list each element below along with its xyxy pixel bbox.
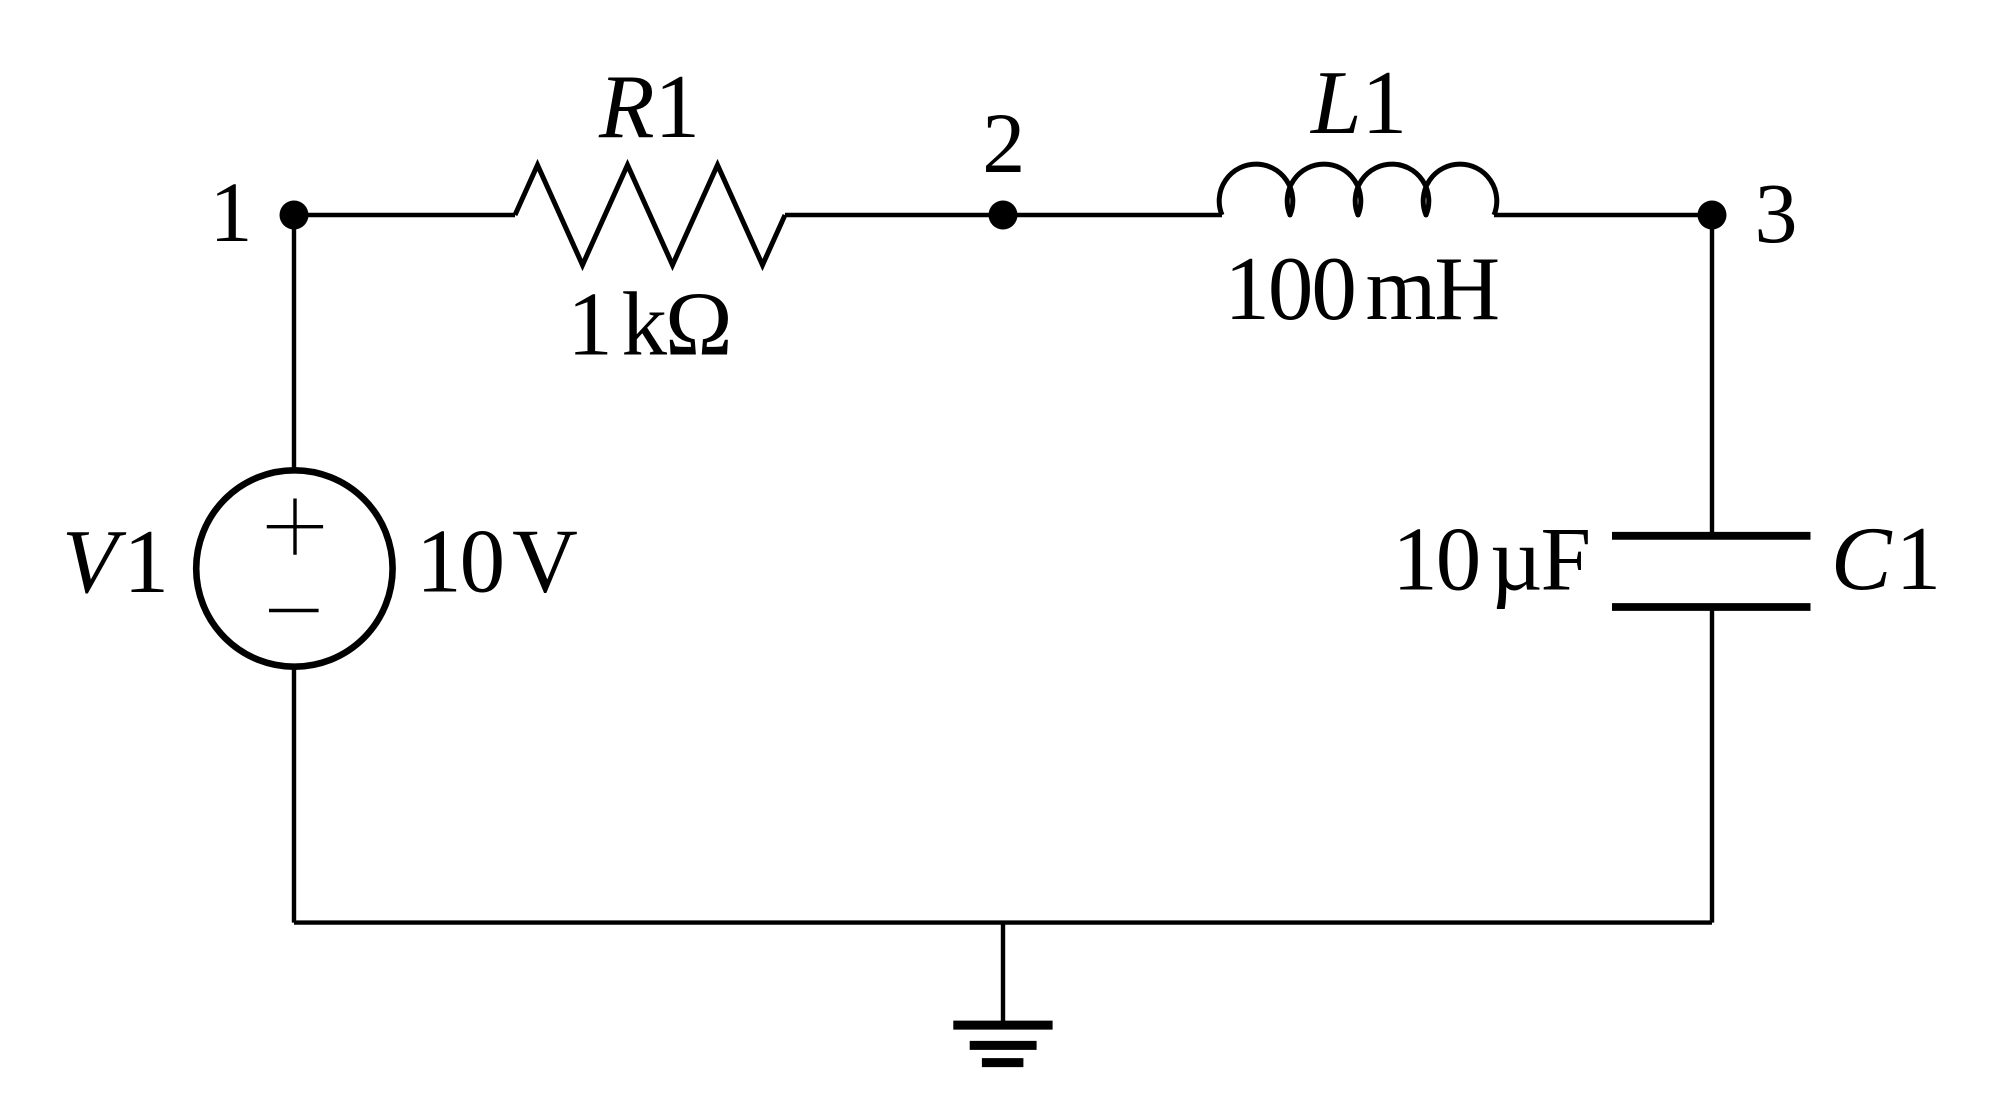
wire V1 bottom terminal down to bottom rail [292,669,296,923]
wire resistor R1 to inductor L1 (through node 2) [785,213,1222,217]
V1 minus sign [269,609,319,612]
wire inductor L1 to node 3 [1494,213,1712,217]
svg-text:3: 3 [1755,165,1798,261]
ground stub wire [1001,923,1005,1021]
svg-text:10 V: 10 V [416,511,577,612]
svg-text:10 µF: 10 µF [1392,509,1589,610]
wire node1 to resistor R1 left lead [294,213,515,217]
wire node 1 down to V1 top terminal [292,215,296,468]
capacitor C1 plates [1612,536,1811,607]
node 3 junction dot [1698,201,1727,230]
wire node 3 down to capacitor C1 top plate [1710,215,1714,535]
V1 plus sign [267,499,323,555]
svg-text:V1: V1 [62,511,169,612]
svg-text:2: 2 [982,95,1025,191]
svg-text:R1: R1 [598,56,700,157]
svg-text:1 kΩ: 1 kΩ [567,274,730,375]
svg-text:L1: L1 [1309,52,1407,153]
resistor R1 zigzag [515,165,785,265]
svg-text:1: 1 [210,164,253,260]
voltage source V1 circle [196,470,392,666]
inductor L1 (4 humps) [1219,164,1497,215]
bottom rail wire [294,920,1712,924]
svg-text:100 mH: 100 mH [1224,238,1498,339]
node 1 junction dot [280,201,309,230]
ground symbol (3 bars) [953,1025,1052,1063]
node 2 junction dot [989,201,1018,230]
wire capacitor C1 bottom plate down to bottom rail [1710,608,1714,923]
svg-text:C1: C1 [1831,508,1941,609]
